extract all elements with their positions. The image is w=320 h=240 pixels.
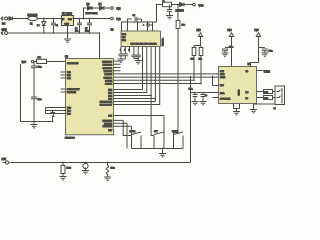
svg-text:RB5: RB5	[108, 99, 112, 101]
svg-text:FERRITE: FERRITE	[28, 15, 38, 17]
svg-text:RA6/OSC2: RA6/OSC2	[103, 125, 112, 128]
wire regulator output	[74, 18, 111, 20]
wire U2 data verticals	[114, 47, 160, 136]
node junctions top rail	[127, 21, 149, 23]
svg-text:RA0: RA0	[67, 71, 71, 74]
audio jack J2	[273, 86, 285, 110]
wire U2 top stubs	[128, 22, 153, 31]
svg-text:5V0: 5V0	[117, 19, 122, 21]
IC U3 microcontroller	[65, 57, 114, 140]
ferrite bead L1	[28, 15, 38, 26]
svg-text:RA3: RA3	[108, 115, 112, 118]
ground return line	[1, 30, 99, 35]
svg-text:10k: 10k	[191, 59, 194, 61]
connector tap 5V rail	[111, 17, 122, 21]
label ANT	[2, 158, 13, 164]
ground left loop	[31, 122, 38, 128]
wire vpp loop left	[21, 64, 35, 122]
node junction at R1 top	[177, 4, 179, 6]
svg-text:J2: J2	[274, 108, 276, 110]
svg-text:RC6/TX: RC6/TX	[105, 81, 112, 83]
wire gnd stub to U3	[99, 33, 101, 59]
ferrite bead L2	[163, 1, 172, 7]
svg-text:100n: 100n	[38, 99, 42, 101]
svg-text:RB0/AN12/INT: RB0/AN12/INT	[67, 88, 80, 91]
svg-text:L2: L2	[163, 1, 165, 3]
node junction at C1	[53, 18, 55, 20]
capacitor C1	[51, 19, 58, 34]
svg-text:RC0/SOSC: RC0/SOSC	[102, 62, 112, 64]
capacitor C5 series top	[128, 15, 142, 22]
svg-text:VCC: VCC	[199, 5, 204, 7]
ground beside C12	[222, 53, 229, 56]
power arrow 5V a	[197, 30, 203, 43]
wire between diodes	[92, 7, 100, 9]
svg-text:RA1: RA1	[67, 74, 71, 77]
svg-text:100n: 100n	[85, 31, 89, 33]
svg-text:5V1: 5V1	[117, 9, 122, 11]
ground under C15	[200, 102, 207, 105]
svg-text:FT232RL: FT232RL	[162, 38, 164, 46]
wire L2 to D5	[172, 4, 180, 6]
svg-text:1u: 1u	[205, 95, 207, 97]
wire U2 top rail	[122, 22, 157, 31]
diode D5	[176, 3, 185, 13]
svg-text:TUNE: TUNE	[264, 72, 271, 74]
svg-text:2: 2	[124, 49, 125, 51]
node junction buttons gnd	[162, 148, 164, 150]
svg-text:ANT: ANT	[2, 158, 7, 161]
wire input line	[13, 18, 62, 20]
ferrite bead L3	[257, 90, 273, 94]
svg-text:VDD: VDD	[67, 108, 72, 110]
capacitor C8 under U2	[119, 52, 124, 60]
wire branch up	[84, 8, 88, 19]
wire VDD stubs	[46, 108, 66, 114]
capacitor C12	[222, 43, 233, 67]
ground below regulator	[64, 32, 71, 42]
svg-text:BLM: BLM	[264, 92, 268, 94]
wire R2 to U3	[34, 61, 66, 63]
svg-text:RA4/T0CKI: RA4/T0CKI	[102, 119, 112, 122]
svg-text:SEN: SEN	[220, 71, 225, 73]
svg-text:100n: 100n	[38, 67, 42, 69]
svg-text:GND TXD RXD RTS CTS DTR: GND TXD RXD RTS CTS DTR	[131, 44, 158, 46]
ground audio jack	[250, 104, 275, 113]
ground buttons	[159, 149, 166, 157]
wire to VBAT tap	[104, 7, 111, 9]
svg-text:RC3/SCK: RC3/SCK	[104, 71, 113, 73]
svg-text:RC1/CCP2: RC1/CCP2	[103, 65, 112, 67]
svg-text:GPO/CLK A: GPO/CLK A	[220, 98, 231, 101]
wire antenna line	[13, 162, 191, 164]
connector pad MCLR	[31, 60, 33, 62]
connector tap VCC	[193, 3, 204, 7]
svg-text:Si4703: Si4703	[239, 90, 241, 96]
ground under C8	[118, 59, 125, 62]
diode D3	[87, 4, 93, 10]
spark gap E1	[82, 162, 89, 174]
wire U3 taps to verticals	[114, 95, 157, 100]
node branch to diodes	[83, 18, 85, 20]
svg-text:10u: 10u	[75, 31, 78, 33]
svg-text:VCC: VCC	[122, 34, 127, 36]
svg-text:100u: 100u	[111, 168, 115, 170]
svg-text:1: 1	[120, 49, 121, 51]
resistor R4	[61, 162, 71, 177]
zener diode D2	[37, 19, 46, 34]
capacitor C4	[167, 5, 172, 16]
svg-text:GND: GND	[65, 24, 70, 26]
svg-text:RA2: RA2	[67, 77, 71, 80]
svg-text:U1 78L05: U1 78L05	[62, 14, 73, 16]
svg-text:RB3: RB3	[108, 93, 112, 95]
ground under C14	[192, 102, 199, 105]
bus wires U3 to right	[114, 61, 219, 148]
ferrite bead L4	[257, 96, 273, 100]
ground under U4	[233, 109, 240, 115]
wire U4 gpo stub	[213, 97, 219, 99]
capacitor C3	[85, 19, 92, 34]
svg-text:RC5/SDO: RC5/SDO	[104, 77, 113, 79]
connector tap VBAT	[111, 7, 122, 11]
svg-text:5V0: 5V0	[197, 30, 202, 32]
diode D1	[9, 17, 13, 21]
svg-text:BAT854: BAT854	[176, 9, 185, 12]
svg-text:RC4/SDI: RC4/SDI	[105, 74, 113, 76]
capacitor C6 polarized	[143, 22, 153, 27]
svg-text:100n: 100n	[229, 47, 233, 49]
capacitor C2	[75, 19, 82, 34]
svg-text:RA5/AN4: RA5/AN4	[104, 122, 112, 125]
wire buttons common	[132, 148, 184, 150]
svg-text:3V3: 3V3	[122, 37, 125, 39]
svg-text:RB7/ICSPDAT: RB7/ICSPDAT	[100, 104, 113, 107]
svg-text:C7: C7	[85, 28, 87, 30]
svg-text:C5: C5	[133, 15, 135, 17]
svg-text:SCLK: SCLK	[220, 77, 226, 79]
pushbutton S3	[172, 131, 183, 149]
voltage regulator U1	[62, 14, 74, 34]
svg-text:OSC1/CLKIN: OSC1/CLKIN	[67, 63, 79, 65]
svg-text:5V0: 5V0	[255, 30, 260, 32]
resistor R2	[37, 57, 47, 64]
node junction at C3	[89, 18, 91, 20]
svg-text:10k: 10k	[182, 25, 185, 27]
node junction at C2	[79, 18, 81, 20]
inductor L5	[106, 162, 114, 178]
node junction at D2	[43, 18, 45, 20]
svg-text:RB1/AN10: RB1/AN10	[67, 91, 76, 94]
U3 left pin stubs	[61, 72, 66, 92]
pushbutton S2	[154, 131, 164, 149]
svg-text:MODE: MODE	[172, 131, 178, 133]
capacitor C15	[201, 93, 208, 102]
svg-text:GND: GND	[2, 30, 7, 32]
ground under C13	[261, 53, 268, 56]
wire LINEOUT label	[257, 71, 271, 74]
capacitor C9 under U2	[122, 52, 128, 60]
svg-text:D2: D2	[37, 25, 39, 27]
capacitor C13	[251, 43, 273, 67]
svg-text:SDIO: SDIO	[220, 74, 225, 76]
wire U4 bottom pins	[234, 104, 240, 109]
U2 bottom pin stubs	[120, 47, 130, 53]
svg-text:C1: C1	[56, 25, 58, 27]
capacitor C16 pair under U2	[132, 47, 142, 64]
svg-text:RB6/ICSPCLK: RB6/ICSPCLK	[100, 102, 113, 104]
svg-text:DC: DC	[2, 24, 6, 26]
wire top feed to U2	[157, 5, 163, 23]
node junctions on ground line	[43, 32, 90, 34]
wire bottom loop	[34, 114, 53, 122]
wire antenna riser	[190, 76, 192, 163]
IC U4 radio tuner	[219, 64, 257, 104]
svg-text:BLM: BLM	[264, 98, 268, 100]
svg-text:FM A: FM A	[220, 92, 225, 95]
U3 right pin labels	[100, 62, 113, 133]
capacitor C14	[189, 89, 198, 102]
resistor R3 pull-up pair	[191, 43, 203, 85]
IC U2 usb interface	[111, 30, 165, 47]
wire D5 to VCC tap	[184, 4, 193, 6]
svg-text:5V0: 5V0	[228, 30, 233, 32]
resistor R1	[174, 5, 185, 136]
ground under C4	[166, 16, 173, 19]
svg-text:C6: C6	[75, 28, 77, 30]
power arrow 5V c	[255, 30, 261, 43]
svg-text:3: 3	[128, 49, 129, 51]
capacitor C11	[31, 97, 42, 122]
ground under R4	[60, 177, 67, 180]
svg-text:RB4: RB4	[108, 96, 112, 98]
svg-text:LOW POWER: LOW POWER	[86, 13, 99, 15]
wire RST to U4	[213, 76, 219, 86]
svg-text:RC7/RX: RC7/RX	[105, 84, 113, 86]
svg-text:RA7: RA7	[108, 129, 112, 132]
svg-text:RC2/CCP1: RC2/CCP1	[103, 68, 112, 70]
zener D6	[51, 111, 55, 123]
svg-text:100n: 100n	[269, 51, 273, 53]
pushbutton S1	[130, 131, 142, 149]
diode D4	[86, 4, 105, 15]
svg-text:VPP: VPP	[22, 62, 27, 64]
power arrow 5V b	[228, 30, 234, 43]
capacitor C10	[31, 61, 42, 97]
svg-text:10k: 10k	[38, 57, 41, 59]
svg-text:100k: 100k	[67, 168, 71, 170]
svg-text:PIC16F886: PIC16F886	[65, 138, 75, 140]
svg-text:RB2: RB2	[108, 90, 112, 92]
wire RF input	[191, 92, 219, 94]
connector J1 power input	[1, 17, 9, 26]
svg-text:MODE: MODE	[130, 131, 136, 133]
ground under L5	[104, 177, 111, 180]
